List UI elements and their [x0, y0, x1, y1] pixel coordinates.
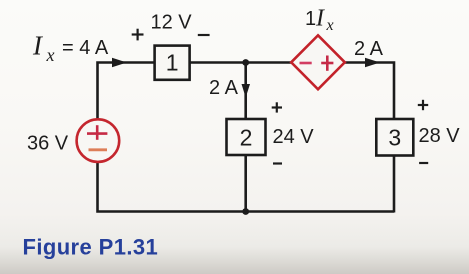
svg-text:x: x: [46, 45, 55, 65]
svg-text:3: 3: [388, 125, 401, 151]
wire box1 to diamond with node junction: [190, 61, 293, 64]
element box 1: [155, 46, 190, 80]
wire top-left corner to box 1: [98, 63, 155, 120]
current arrow Ix on top-left wire: [112, 58, 127, 67]
node junction dot top: [242, 59, 249, 66]
svg-text:x: x: [326, 17, 334, 34]
wire box 2 to bottom node: [244, 155, 247, 212]
svg-text:1: 1: [305, 8, 316, 30]
polarity plus box 2: [272, 102, 282, 112]
element box 3: [376, 119, 413, 156]
polarity minus box 2: [273, 162, 282, 164]
wire middle vertical junction to box 2: [244, 63, 247, 120]
svg-text:2 A: 2 A: [354, 38, 384, 60]
svg-text:36 V: 36 V: [27, 133, 69, 155]
svg-text:I: I: [315, 6, 325, 32]
voltage source 36V circle: [77, 119, 120, 162]
dependent source diamond 1Ix: [291, 35, 345, 89]
polarity plus box 3: [418, 100, 428, 110]
svg-text:1: 1: [166, 50, 179, 76]
svg-text:2 A: 2 A: [209, 77, 239, 99]
svg-text:= 4 A: = 4 A: [62, 37, 109, 59]
current arrow 2A down middle wire: [242, 84, 251, 98]
svg-text:Figure P1.31: Figure P1.31: [23, 235, 159, 260]
label Ix = 4 A: [32, 31, 109, 66]
element box 2: [227, 119, 266, 155]
svg-text:12 V: 12 V: [151, 12, 193, 34]
polarity minus box 3: [419, 162, 428, 164]
label 1Ix above diamond: [305, 6, 334, 35]
current arrow 2A on top-right wire: [365, 58, 380, 67]
wire diamond to top-right corner down to box 3: [345, 63, 395, 120]
svg-text:28 V: 28 V: [419, 125, 461, 147]
polarity minus box 1: [198, 34, 210, 36]
node junction dot bottom: [242, 208, 249, 215]
svg-text:2: 2: [240, 125, 253, 151]
polarity plus box 1: [132, 29, 144, 41]
wire box 3 bottom to bottom rail: [393, 156, 396, 213]
wire 36V source bottom to bottom-left corner and bottom rail: [98, 162, 395, 212]
svg-text:24 V: 24 V: [273, 126, 315, 148]
